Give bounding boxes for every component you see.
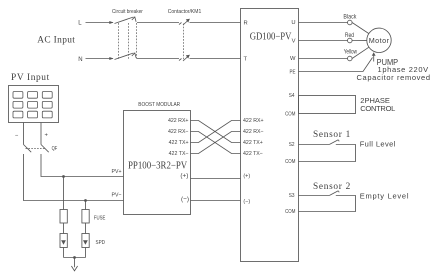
svg-text:COM: COM (285, 209, 295, 216)
svg-text:Motor: Motor (369, 36, 390, 45)
svg-text:PV+: PV+ (112, 169, 122, 175)
svg-text:422 RX−: 422 RX− (243, 129, 264, 135)
svg-text:S4: S4 (289, 93, 295, 100)
svg-text:Contactor/KM1: Contactor/KM1 (168, 9, 202, 15)
svg-text:Circuit breaker: Circuit breaker (112, 8, 143, 15)
svg-text:Black: Black (343, 14, 356, 20)
svg-text:PV Input: PV Input (11, 73, 50, 83)
svg-text:422 TX+: 422 TX+ (243, 140, 263, 146)
svg-text:(+): (+) (243, 173, 250, 179)
svg-text:422 TX−: 422 TX− (169, 151, 189, 157)
svg-text:−: − (15, 133, 19, 139)
svg-text:Full Level: Full Level (360, 140, 396, 149)
svg-text:422 TX+: 422 TX+ (169, 140, 189, 146)
svg-text:SPD: SPD (96, 239, 106, 246)
svg-text:W: W (290, 56, 296, 62)
svg-text:422 TX−: 422 TX− (243, 151, 263, 157)
svg-text:(−): (−) (181, 196, 189, 203)
svg-text:(−): (−) (243, 199, 250, 205)
svg-text:COM: COM (285, 111, 295, 118)
svg-text:422 RX+: 422 RX+ (168, 118, 189, 124)
svg-text:T: T (244, 57, 248, 63)
svg-text:S3: S3 (289, 192, 295, 199)
svg-text:AC Input: AC Input (37, 36, 75, 46)
svg-text:CONTROL: CONTROL (360, 104, 395, 113)
svg-text:BOOST MODULAR: BOOST MODULAR (138, 102, 180, 109)
svg-text:422 RX+: 422 RX+ (243, 118, 264, 124)
svg-text:Empty Level: Empty Level (360, 192, 409, 201)
svg-text:GD100−PV: GD100−PV (250, 32, 292, 43)
svg-text:N: N (78, 57, 82, 63)
svg-text:U: U (291, 20, 295, 26)
svg-text:(+): (+) (180, 173, 188, 180)
svg-text:COM: COM (285, 159, 295, 166)
svg-text:PP100−3R2−PV: PP100−3R2−PV (128, 160, 187, 172)
svg-text:Red: Red (345, 33, 354, 40)
svg-text:R: R (244, 20, 248, 26)
svg-text:PE: PE (289, 69, 295, 76)
svg-text:QF: QF (52, 145, 58, 152)
svg-text:+: + (45, 133, 49, 139)
svg-text:Capacitor removed: Capacitor removed (357, 73, 431, 82)
svg-text:Sensor 2: Sensor 2 (313, 182, 351, 192)
svg-text:Sensor 1: Sensor 1 (313, 130, 351, 140)
svg-text:S2: S2 (289, 141, 295, 148)
svg-text:422 RX−: 422 RX− (168, 129, 189, 135)
svg-text:V: V (292, 38, 296, 44)
svg-text:Yellow: Yellow (344, 49, 357, 56)
svg-text:L: L (78, 21, 82, 27)
svg-text:FUSE: FUSE (94, 215, 106, 222)
svg-text:PV−: PV− (112, 192, 122, 198)
